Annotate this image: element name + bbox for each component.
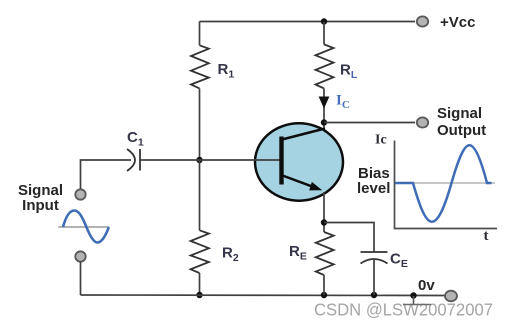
svg-text:Ic: Ic: [375, 133, 387, 148]
node collector junction: [321, 119, 327, 125]
node IC arrow: [319, 97, 330, 109]
wire RE bottom lead: [323, 275, 325, 295]
resistor R2: [191, 230, 209, 273]
transistor Q1 collector line: [282, 129, 325, 140]
wire input left segment: [81, 160, 132, 190]
node 0v junction: [410, 292, 416, 298]
wire R2 bottom lead: [199, 273, 201, 295]
wire top rail: [200, 21, 416, 23]
terminal signal input top: [75, 189, 85, 199]
node graph y-axis: [394, 141, 396, 229]
wire RL top lead: [323, 22, 325, 45]
node input sine icon: [58, 226, 109, 228]
node watermark strike: [403, 304, 431, 306]
wire base lead: [140, 159, 282, 161]
node RE ground junction: [321, 292, 327, 298]
wire RL bottom lead with arrow: [323, 88, 325, 131]
svg-text:Signal: Signal: [437, 105, 482, 122]
svg-text:R1: R1: [218, 61, 235, 81]
wire R1 bottom lead: [199, 88, 201, 160]
svg-text:IC: IC: [336, 93, 350, 111]
node graph sine curve: [395, 145, 492, 222]
svg-text:CSDN @LSW20072007: CSDN @LSW20072007: [314, 300, 493, 320]
svg-text:CE: CE: [390, 251, 408, 271]
wire signal output lead: [324, 122, 415, 124]
wire 0v stub: [413, 296, 415, 305]
transistor Q1 body: [255, 123, 343, 200]
node bias level line: [395, 182, 495, 184]
svg-text:C1: C1: [127, 129, 144, 149]
svg-text:+Vcc: +Vcc: [440, 14, 475, 31]
transistor Q1 emitter line: [283, 176, 314, 187]
wire CE bottom lead: [373, 260, 375, 295]
node CE ground junction: [371, 292, 377, 298]
node emitter junction: [321, 219, 327, 225]
svg-text:0v: 0v: [418, 277, 435, 294]
terminal +Vcc: [417, 16, 428, 26]
wire CE branch top: [324, 223, 374, 253]
terminal 0v: [445, 291, 457, 302]
node graph x-axis: [394, 228, 497, 230]
transistor Q1 emitter arrow: [309, 182, 322, 191]
svg-text:RE: RE: [289, 243, 307, 263]
wire emitter lead: [323, 192, 325, 232]
wire R1 top lead: [199, 22, 201, 46]
capacitor C1: [127, 149, 135, 171]
resistor R1: [191, 45, 209, 88]
svg-text:level: level: [357, 180, 390, 197]
svg-text:R2: R2: [222, 245, 239, 265]
wire R2 top lead: [199, 160, 201, 230]
resistor RL: [316, 44, 334, 88]
resistor RE: [316, 232, 334, 275]
svg-text:Input: Input: [22, 197, 59, 214]
node top rail / RL junction: [321, 18, 327, 24]
node base junction: [196, 157, 202, 163]
capacitor CE: [361, 251, 388, 253]
node R2 ground junction: [196, 292, 202, 298]
svg-text:t: t: [484, 228, 489, 244]
transistor Q1 base bar: [279, 137, 283, 185]
svg-text:Output: Output: [437, 122, 486, 139]
wire input bottom lead: [80, 262, 82, 296]
wire bottom rail: [81, 294, 446, 297]
svg-text:RL: RL: [340, 62, 358, 82]
terminal signal output: [417, 117, 428, 127]
terminal signal input bottom: [75, 251, 85, 261]
